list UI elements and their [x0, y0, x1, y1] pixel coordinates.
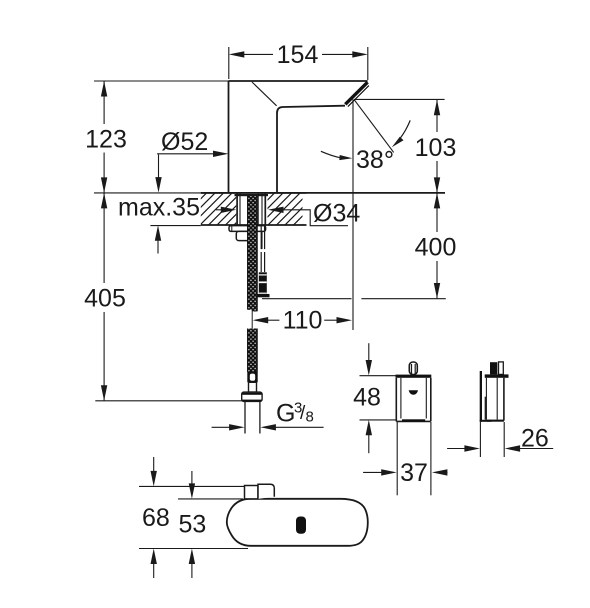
supply hose upper segment (braided): [247, 196, 257, 329]
hose end nut/washer: [242, 392, 262, 401]
dimension max.35: [118, 155, 201, 254]
control box side view: [480, 362, 509, 422]
svg-text:37: 37: [400, 459, 428, 487]
sensor cable plug: [257, 272, 269, 297]
dimension 68: [139, 457, 248, 578]
locknut under flange: [236, 231, 249, 240]
crimp sleeve at hose end: [247, 372, 257, 392]
svg-text:405: 405: [84, 285, 126, 313]
angle label 38°: [321, 120, 410, 174]
dimension 53: [178, 471, 243, 578]
dimension 400: [361, 193, 456, 299]
svg-text:max.35: max.35: [118, 194, 200, 222]
faucet body outline: [229, 81, 368, 192]
G3/8 connection pipe: [245, 401, 260, 433]
counter deck cross-section right block: [268, 194, 303, 225]
svg-text:26: 26: [521, 425, 549, 453]
dimension 154: [229, 41, 368, 80]
flange under deck: [229, 226, 266, 232]
svg-text:154: 154: [277, 41, 319, 69]
svg-text:8: 8: [306, 409, 314, 426]
label Ø52 with leader: [157, 128, 228, 157]
aerator at spout tip: [345, 82, 369, 106]
svg-text:38: 38: [356, 146, 384, 174]
label Ø34 with arrows: [216, 199, 360, 227]
svg-text:53: 53: [179, 511, 207, 539]
dimension 110: [253, 307, 352, 335]
dimension 37: [363, 422, 447, 495]
wire: deck-level extension line full width: [94, 192, 201, 194]
control box front view: [396, 362, 432, 422]
faucet bottom/side profile view: [227, 484, 368, 546]
spout tip reference point extensions: [353, 99, 445, 330]
svg-text:110: 110: [283, 307, 323, 335]
svg-text:123: 123: [85, 125, 127, 153]
dimension 48: [353, 343, 396, 453]
dimension 26: [447, 422, 553, 457]
mounting shank through deck: [235, 194, 269, 250]
svg-text:Ø52: Ø52: [161, 128, 208, 156]
svg-text:G: G: [276, 400, 295, 428]
sensor cable: [261, 225, 264, 272]
dimension 103: [415, 100, 457, 193]
dimension 123: [85, 81, 127, 193]
svg-text:103: 103: [415, 134, 457, 162]
svg-text:68: 68: [142, 504, 170, 532]
dimension 405: [84, 193, 248, 401]
extension line from cable plug: [262, 298, 352, 300]
wire: left extension line at faucet top: [94, 80, 229, 82]
label G 3/8 with arrows: [212, 400, 324, 431]
counter deck cross-section left block: [201, 193, 307, 225]
svg-text:400: 400: [415, 234, 457, 262]
supply hose lower segment (braided): [247, 329, 257, 373]
svg-text:48: 48: [353, 384, 381, 412]
